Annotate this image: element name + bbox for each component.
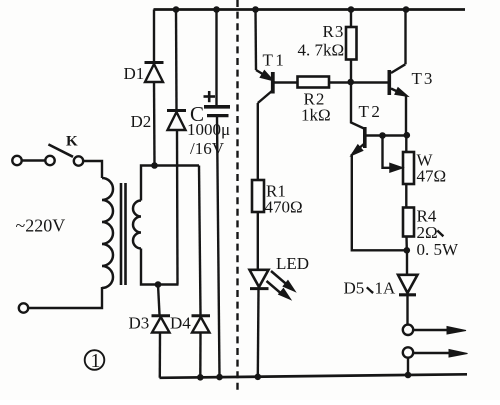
diode D2 [167,10,186,285]
svg-text:K: K [66,134,78,150]
diode D4 [192,166,211,378]
terminal output negative [403,347,413,357]
wire R1 to LED [257,212,259,269]
transistor T3 [389,10,406,136]
svg-text:LED: LED [276,254,309,273]
svg-text:4. 7kΩ: 4. 7kΩ [298,41,345,60]
terminal output positive [403,325,413,335]
transistor T1 [256,10,298,181]
svg-text:D1: D1 [124,64,145,83]
node junction dot output bottom [405,372,412,379]
wire R2 to T3 base [329,81,388,83]
node junction dot D2 top [173,6,180,13]
node junction dot C bottom [216,374,223,381]
svg-text:T2: T2 [359,102,383,121]
dashed separator line [236,0,238,391]
LED emission arrow 2 [267,281,290,299]
resistor R2 [298,77,330,88]
figure number circled 1 [85,350,105,372]
capacitor C [204,10,231,378]
LED emission arrow 1 [271,271,294,291]
wire secondary bottom [141,249,179,285]
wire top positive rail [154,8,466,11]
resistor R4 [403,184,414,250]
node junction dot T2 collector / wiper [379,132,386,139]
node junction dot T1 top [252,6,259,13]
wire primary bottom to AC terminal [29,287,103,308]
svg-text:470Ω: 470Ω [265,198,303,217]
svg-text:0. 5W: 0. 5W [417,240,460,259]
switch K right contact [74,156,83,165]
wire output positive with arrow [414,327,467,335]
label comma after 2ohm [437,231,443,236]
svg-text:~220V: ~220V [16,216,66,236]
wire switch to transformer [84,161,103,178]
node junction dot R3 top [348,6,355,13]
node junction dot R2/R3/T2 [347,79,354,86]
node junction dot secondary bottom / D3 [155,281,162,288]
diode D1 [145,10,164,166]
svg-text:D4: D4 [170,314,191,333]
diode D3 [152,285,171,378]
transformer secondary winding [133,201,141,249]
LED [250,270,269,377]
wire AC to switch [22,159,45,161]
svg-text:1000μ: 1000μ [187,120,230,139]
wire bottom ground rail [160,374,468,378]
node junction dot secondary top / D1 [151,162,158,169]
svg-text:/16V: /16V [190,139,225,158]
wire output negative with arrow [414,350,468,358]
resistor R1 [252,180,264,212]
node junction dot T3 emitter / W [404,132,411,139]
potentiometer W [383,135,415,184]
svg-text:D3: D3 [129,314,150,333]
node junction dot D4 bottom [197,374,204,381]
svg-text:D2: D2 [131,112,152,131]
resistor R3 [346,10,357,83]
svg-text:1A: 1A [375,279,397,298]
transformer primary winding [102,178,113,288]
svg-text:T1: T1 [263,51,287,70]
terminal AC input upper-left [12,156,21,165]
node junction dot T3 collector top [403,6,410,13]
svg-text:47Ω: 47Ω [417,167,447,186]
svg-text:R3: R3 [323,22,345,41]
transformer core [120,183,123,285]
node junction dot C top [213,6,220,13]
svg-text:D5: D5 [344,279,365,298]
wire output negative to ground rail [407,358,409,375]
svg-text:T3: T3 [412,69,435,88]
node junction dot LED bottom [254,374,261,381]
transistor T2 [351,82,407,250]
switch K left contact [45,156,54,165]
svg-text:1: 1 [91,350,101,372]
switch K blade [48,144,73,156]
node junction dot R4 bottom / D5 [404,247,411,254]
diode D5 [398,250,418,324]
wire secondary top [141,166,199,201]
terminal AC input lower-left [19,303,28,312]
svg-text:1kΩ: 1kΩ [301,106,331,125]
